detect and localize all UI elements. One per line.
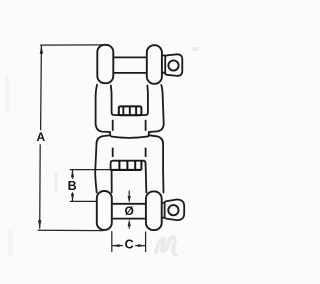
- svg-text:Ø: Ø: [125, 204, 134, 218]
- svg-text:B: B: [68, 179, 77, 193]
- svg-text:A: A: [36, 130, 45, 144]
- svg-text:C: C: [125, 238, 134, 252]
